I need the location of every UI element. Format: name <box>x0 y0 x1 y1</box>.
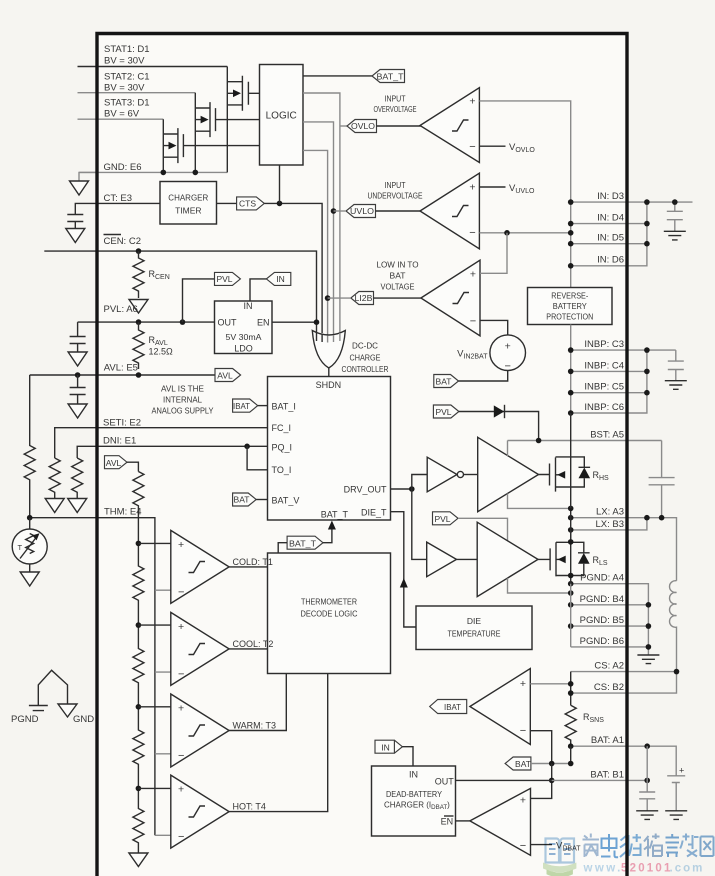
svg-text:BAT_T: BAT_T <box>289 538 316 548</box>
svg-text:EN: EN <box>441 816 454 826</box>
wire LI2B flag tip stub <box>328 297 351 299</box>
node CTS flag <box>237 197 265 210</box>
node junction AVL cap <box>75 372 81 378</box>
svg-text:INBP: C5: INBP: C5 <box>584 382 624 393</box>
svg-text:−: − <box>178 831 184 843</box>
svg-text:PGND: B4: PGND: B4 <box>580 594 624 605</box>
wire IN D4 row <box>571 223 647 225</box>
svg-text:−: − <box>469 227 475 239</box>
wire OVLO flag to comparator <box>377 125 421 128</box>
diode DHS body diode <box>571 457 590 487</box>
wire CS B2 row <box>571 672 677 694</box>
wire OVLO flag tip stub <box>340 125 347 127</box>
gate U_OR shutdown OR gate <box>312 331 345 369</box>
svg-text:−: − <box>178 750 184 762</box>
node STAT1 pin label <box>104 44 150 67</box>
node label low in to bat voltage <box>377 260 419 292</box>
op-amp U_WARM comparator <box>171 694 229 767</box>
battery BT1 <box>667 766 685 811</box>
svg-text:STAT2: C1: STAT2: C1 <box>104 72 150 83</box>
svg-text:−: − <box>470 316 476 328</box>
resistor Rt1 (AVL to COLD tap) <box>133 472 144 544</box>
node IN flag (LDO) <box>266 272 290 285</box>
wire BAT flag row <box>531 763 571 765</box>
svg-text:INBP: C4: INBP: C4 <box>584 360 624 371</box>
svg-text:+: + <box>520 678 526 690</box>
wire BAT A1 row <box>571 746 677 776</box>
wire LDO EN to CEN bus <box>272 321 317 323</box>
capacitor AVL external <box>70 375 86 404</box>
svg-text:IN: IN <box>276 274 285 284</box>
wire DBC EN to comparator <box>456 820 470 822</box>
wire INBP C4 row <box>571 370 647 372</box>
node junction HOT tap <box>136 786 142 792</box>
node junction DNI branch <box>244 444 250 450</box>
wire IN D3 row <box>571 201 693 203</box>
ground IN cap earth <box>664 231 686 240</box>
resistor RSNS <box>565 705 604 746</box>
capacitor PVL external <box>70 322 86 352</box>
svg-text:+: + <box>470 269 476 281</box>
svg-text:AVL: AVL <box>217 371 233 381</box>
node BAT flag (controller) <box>233 493 257 506</box>
wire charger timer output to CTS flag <box>217 202 237 204</box>
wire STAT2 row <box>78 92 196 94</box>
svg-text:AVL IS THE: AVL IS THE <box>161 384 204 394</box>
svg-text:DEAD-BATTERY: DEAD-BATTERY <box>386 789 442 799</box>
svg-text:IN: D4: IN: D4 <box>597 213 624 224</box>
wire INBP bus down through power stage <box>570 350 572 413</box>
svg-text:THERMOMETER: THERMOMETER <box>301 597 357 607</box>
svg-text:OVERVOLTAGE: OVERVOLTAGE <box>374 104 417 114</box>
svg-text:CONTROLLER: CONTROLLER <box>342 364 389 374</box>
wire THM row to comparator minus bus <box>30 518 155 836</box>
node junction EN on CEN bus <box>314 319 320 325</box>
svg-text:INPUT: INPUT <box>385 94 406 104</box>
node junction UV minus to LI2B plus <box>504 230 510 236</box>
resistor R SETI <box>49 458 60 498</box>
svg-text:PROTECTION: PROTECTION <box>546 312 593 322</box>
node junction RAVL bottom <box>136 372 142 378</box>
svg-text:UVLO: UVLO <box>350 206 374 216</box>
wire RBP to INBP bus <box>570 325 572 351</box>
wire OR output to SHDN <box>328 368 330 377</box>
svg-text:COOL: T2: COOL: T2 <box>233 639 274 649</box>
op-amp U_COOL comparator <box>171 612 229 685</box>
svg-text:+: + <box>178 539 184 551</box>
svg-text:BAT_V: BAT_V <box>272 496 300 506</box>
svg-text:INTERNAL: INTERNAL <box>163 395 202 405</box>
wire DBC OUT to BAT B1 row <box>456 779 552 781</box>
ground GND:E6 triangle <box>70 181 89 195</box>
node junction LS source <box>568 573 574 579</box>
svg-text:OUT: OUT <box>218 318 238 328</box>
wire UVLO flag to comparator <box>376 210 421 212</box>
svg-text:PVL: PVL <box>435 407 451 417</box>
op-amp U_LI2B low-in-to-bat comparator <box>421 260 480 336</box>
wire STAT1 row <box>78 66 228 68</box>
capacitor IN bypass <box>667 199 683 231</box>
wire LX B3 row <box>571 518 647 530</box>
node junction LX dots <box>568 515 664 533</box>
wire AVL:E5 row <box>30 374 215 376</box>
node junction HS rail LX <box>568 506 574 512</box>
svg-text:.com: .com <box>670 863 705 875</box>
svg-text:ANALOG SUPPLY: ANALOG SUPPLY <box>152 406 214 416</box>
op-amp U_OV input overvoltage comparator <box>420 88 479 163</box>
node BAT flag (VIN2BAT) <box>434 375 459 388</box>
wire HOT minus stub <box>155 834 171 836</box>
node AVL flag (thermal divider) <box>105 456 128 469</box>
ground PGND earth <box>637 655 659 664</box>
svg-text:OUT: OUT <box>435 777 455 787</box>
wire COLD output to decode <box>229 566 267 568</box>
wire PGND bus segment <box>570 584 572 647</box>
wire DRV_OUT to HS inverter <box>412 475 427 490</box>
svg-text:PVL: PVL <box>216 274 232 284</box>
svg-text:www.: www. <box>583 863 623 875</box>
node junction LS drain <box>568 539 574 545</box>
svg-text:OVLO: OVLO <box>351 121 375 131</box>
node BAT flag (bottom) <box>505 757 531 770</box>
svg-text:STAT3: D1: STAT3: D1 <box>104 98 150 109</box>
svg-text:DECODE LOGIC: DECODE LOGIC <box>301 609 358 619</box>
ground RCEN triangle <box>129 300 148 314</box>
wire LI2B minus input to VIN2BAT source <box>480 320 508 335</box>
svg-text:IN: D6: IN: D6 <box>597 255 624 266</box>
wire PVL flag drop <box>183 279 215 322</box>
node PVL flag (LDO) <box>215 272 241 285</box>
op-amp U_CTRL DC-DC charge controller block <box>268 377 391 521</box>
svg-text:FC_I: FC_I <box>272 423 292 433</box>
svg-text:−: − <box>178 587 184 599</box>
wire WARM plus stub <box>138 706 170 708</box>
wire SETI row to FC_I <box>55 428 268 458</box>
node OVLO flag <box>347 120 377 133</box>
svg-text:−: − <box>178 669 184 681</box>
svg-text:PGND: A4: PGND: A4 <box>580 573 624 584</box>
ground battery earth <box>665 811 687 820</box>
svg-text:REVERSE-: REVERSE- <box>551 291 588 301</box>
svg-text:IN: D3: IN: D3 <box>597 191 624 202</box>
svg-text:LX: B3: LX: B3 <box>595 519 624 530</box>
op-amp U_HOT comparator <box>171 775 229 848</box>
svg-text:LDO: LDO <box>234 344 253 354</box>
op-amp U_LDO block (5V 30mA LDO) <box>215 301 273 354</box>
node junction OUT row crossing <box>549 778 555 784</box>
transistor QHS high-side NMOS <box>539 413 571 508</box>
wire CT row to charger timer <box>75 203 160 210</box>
wire VIN2BAT bottom to BAT flag <box>459 371 508 382</box>
svg-text:IBAT: IBAT <box>233 401 250 411</box>
wire HOT plus stub <box>138 787 170 789</box>
svg-text:LX: A3: LX: A3 <box>596 507 624 518</box>
node label DC-DC charge controller title <box>342 341 389 374</box>
node note text AVL internal supply <box>152 384 214 416</box>
svg-text:CS: B2: CS: B2 <box>594 682 624 693</box>
diode D1 bootstrap <box>459 405 539 441</box>
svg-text:520101: 520101 <box>621 863 673 875</box>
svg-text:GND: E6: GND: E6 <box>104 162 142 173</box>
svg-text:CEN: C2: CEN: C2 <box>104 236 141 247</box>
wire PVL:A6 row (LDO OUT) <box>78 321 215 323</box>
node junction CS inductor <box>674 669 680 675</box>
wire STAT3 row <box>78 118 164 120</box>
svg-text:BV = 30V: BV = 30V <box>104 83 145 94</box>
wire LOGIC output to UVLO net <box>303 122 334 337</box>
wire LS driver bottom rail to PGND <box>508 578 571 593</box>
svg-text:12.5Ω: 12.5Ω <box>149 347 174 357</box>
svg-text:5V 30mA: 5V 30mA <box>226 332 262 342</box>
svg-text:TIMER: TIMER <box>175 206 201 216</box>
wire UV minus input to IN bus <box>479 232 570 234</box>
wire battery cap branch <box>646 746 648 792</box>
svg-text:PGND: B5: PGND: B5 <box>580 615 624 626</box>
node junction IN bus dots <box>568 199 650 268</box>
wire RSNS bottom to BAT flag row <box>570 746 572 763</box>
svg-text:LOGIC: LOGIC <box>266 111 297 122</box>
node junction thermistor tap <box>27 515 33 521</box>
svg-text:AVL: AVL <box>106 458 122 468</box>
svg-text:DRV_OUT: DRV_OUT <box>344 484 387 494</box>
wire LOGIC bottom to CTS row <box>279 165 281 203</box>
svg-text:PGND: PGND <box>11 714 39 725</box>
svg-text:COLD: T1: COLD: T1 <box>233 557 273 567</box>
watermark chinese characters <box>583 834 714 858</box>
node BAT_T flag (to controller bottom) <box>287 536 323 549</box>
wire INBP C5 row <box>571 392 647 394</box>
svg-text:IN: D5: IN: D5 <box>597 233 624 244</box>
wire PVL rail into LS driver <box>458 518 508 540</box>
svg-text:+: + <box>178 621 184 633</box>
node junction BAT flag dots <box>549 761 574 767</box>
node STAT2 pin label <box>104 72 150 94</box>
svg-text:PVL: A6: PVL: A6 <box>104 304 138 315</box>
wire DNI row to PQ_I <box>77 446 267 458</box>
svg-text:+: + <box>469 96 475 108</box>
svg-text:BAT_T: BAT_T <box>321 510 349 520</box>
transistor Q3 (STAT1 open-drain NMOS) <box>227 67 259 173</box>
diode DLS body diode <box>571 542 590 575</box>
wire OV minus input VOVLO <box>479 145 505 147</box>
wire LOGIC output to OVLO net <box>303 93 340 336</box>
wire BST rail into HS driver <box>507 441 509 457</box>
node PVL flag (bootstrap diode) <box>433 405 459 418</box>
op-amp U_DBC dead-battery charger block <box>372 766 456 836</box>
wire PGND A4 row <box>571 584 649 605</box>
svg-text:SETI: E2: SETI: E2 <box>103 418 141 429</box>
op-amp U_IBAT current sense amp <box>470 669 530 745</box>
wire OV plus input from IN <box>479 101 570 202</box>
wire UV plus input VUVLO <box>479 186 505 188</box>
svg-text:BAT_T: BAT_T <box>377 71 404 81</box>
svg-text:CS: A2: CS: A2 <box>594 661 624 672</box>
wire INBP C3 row <box>571 349 676 351</box>
svg-text:VOLTAGE: VOLTAGE <box>381 282 415 292</box>
svg-text:BAT_I: BAT_I <box>272 401 296 411</box>
svg-text:+: + <box>505 341 511 353</box>
svg-text:+: + <box>469 182 475 194</box>
wire BAT_T flag right to controller with arrow <box>323 521 336 543</box>
svg-text:−: − <box>469 141 475 153</box>
wire IN D6 row <box>571 202 647 266</box>
op-amp U_COLD comparator <box>171 530 229 603</box>
node junction RCEN tap <box>136 248 142 254</box>
wire PGND B6 row <box>571 605 649 655</box>
node junction PGND dots <box>568 581 651 650</box>
wire COLD plus stub <box>138 542 170 544</box>
wire IN flag to DBC box <box>402 747 413 766</box>
svg-text:PVL: PVL <box>434 514 450 524</box>
gate U_BUF LS buffer <box>427 542 478 577</box>
svg-text:CT: E3: CT: E3 <box>104 193 133 204</box>
svg-text:+: + <box>178 784 184 796</box>
svg-text:T: T <box>18 543 23 552</box>
wire LS source to PGND bus <box>570 576 572 584</box>
wire BAT flag to BAT_V <box>256 499 267 501</box>
svg-text:DC-DC: DC-DC <box>352 341 378 351</box>
svg-text:LOW IN TO: LOW IN TO <box>377 260 419 270</box>
node IN flag (DBC) <box>375 740 402 753</box>
svg-text:BAT: B1: BAT: B1 <box>590 769 624 780</box>
inductor L1 <box>670 581 677 672</box>
resistor Rt5 (HOT to ground) <box>133 788 144 852</box>
wire LX A3 row <box>571 518 677 581</box>
svg-text:−: − <box>520 840 526 852</box>
svg-text:SHDN: SHDN <box>316 380 342 390</box>
node label input undervoltage <box>368 180 423 201</box>
wire DBC comp minus VDBAT <box>531 844 553 846</box>
wire HS driver bottom rail to LX <box>508 494 571 509</box>
wire IBAT minus to BAT net <box>530 731 551 764</box>
wire AVL flag to divider chain <box>127 462 138 471</box>
wire OR gate input stubs <box>317 333 323 343</box>
svg-text:+: + <box>679 766 684 776</box>
gate U_HSDRV high-side driver <box>478 437 539 511</box>
svg-text:UNDERVOLTAGE: UNDERVOLTAGE <box>368 191 423 201</box>
node IBAT flag (sense amp) <box>430 700 467 714</box>
svg-text:+: + <box>520 795 526 807</box>
wire DIE_T input from die temperature <box>391 512 417 627</box>
node junction COOL tap <box>136 622 142 628</box>
wire IN bus down to RBP <box>570 202 572 287</box>
resistor Rt4 <box>133 707 144 789</box>
svg-text:BAT: BAT <box>436 377 452 387</box>
svg-text:IBAT: IBAT <box>444 702 461 712</box>
wire BAT net down to DBC plus <box>531 764 552 799</box>
svg-text:BAT: BAT <box>515 759 531 769</box>
node junction Q1 source to GND <box>161 170 167 176</box>
ground thermal divider triangle <box>129 853 148 867</box>
node junction PVL flag drop <box>180 319 186 325</box>
svg-text:BV = 6V: BV = 6V <box>104 109 140 120</box>
capacitor INBP bypass <box>668 350 684 381</box>
svg-text:BATTERY: BATTERY <box>553 301 587 311</box>
wire BST row <box>508 440 662 442</box>
ground PVL cap triangle <box>68 352 87 366</box>
wire LI2B flag to comparator <box>374 297 421 299</box>
svg-text:BAT: BAT <box>234 495 250 505</box>
node CEN: C2 pin label (overline on CEN) <box>104 235 141 248</box>
wire CS bus left vertical <box>570 672 572 706</box>
svg-text:INBP: C6: INBP: C6 <box>584 402 624 413</box>
node junction RAVL tap <box>136 319 142 325</box>
capacitor CT external <box>67 211 83 229</box>
resistor Rt3 <box>133 625 144 707</box>
charger timer block <box>160 182 217 225</box>
node junction DRV_OUT <box>409 486 415 492</box>
node junction CS B2 left <box>568 690 574 696</box>
wire IN D5 row <box>571 243 647 245</box>
svg-text:CHARGE: CHARGE <box>350 352 381 362</box>
node PGND GND tie symbol <box>11 670 94 725</box>
op-amp U_DBCEN comparator <box>470 788 531 855</box>
ground BAT cap earth <box>636 811 658 820</box>
node VIN2BAT source <box>457 335 525 373</box>
ground AVL cap triangle <box>68 404 87 418</box>
svg-text:THM: E4: THM: E4 <box>104 507 141 518</box>
chip outline border <box>97 34 627 876</box>
svg-text:STAT1: D1: STAT1: D1 <box>104 44 150 55</box>
wire HOT output up to decode bottom <box>229 674 328 812</box>
svg-text:−: − <box>520 725 526 737</box>
op-amp U_LOGIC block <box>260 65 304 166</box>
wire LOGIC to BAT_T flag <box>303 75 372 77</box>
node junction INBP bus dots <box>568 347 650 416</box>
svg-text:INBP: C3: INBP: C3 <box>584 339 624 350</box>
op-amp U_UV input undervoltage comparator <box>420 173 479 249</box>
wire COOL plus stub <box>138 624 170 626</box>
node PVL flag (LS driver) <box>433 512 459 525</box>
wire IN bus LX segment <box>570 508 572 542</box>
resistor RCEN <box>133 251 170 298</box>
wire IBAT plus input to CS bus <box>530 683 570 685</box>
svg-text:BST: A5: BST: A5 <box>590 430 624 441</box>
wire LI2B plus input to UV minus net <box>480 233 507 273</box>
node junction LOGIC to CTS row <box>277 201 283 207</box>
ground INBP cap earth <box>665 381 687 390</box>
wire BAT_T flag left to decode box <box>278 543 287 553</box>
svg-text:DIE: DIE <box>467 616 482 626</box>
ground thermistor triangle <box>20 572 39 586</box>
svg-text:EN: EN <box>257 318 270 328</box>
node BAT_T flag (top) <box>372 70 405 83</box>
resistor R divider left (AVL row) <box>24 375 35 518</box>
svg-text:TO_I: TO_I <box>272 465 292 475</box>
gate U_LSDRV low-side driver <box>477 522 538 596</box>
svg-text:CTS: CTS <box>239 199 256 209</box>
wire COOL minus stub <box>155 671 171 673</box>
node LI2B flag with junction <box>351 292 374 305</box>
wire COLD minus stub <box>155 589 171 591</box>
thermistor T <box>12 518 47 572</box>
svg-text:+: + <box>178 703 184 715</box>
capacitor BAT output <box>639 792 655 811</box>
wire WARM output up to decode bottom <box>229 674 286 731</box>
wire UVLO flag tip stub <box>334 210 347 212</box>
wire DRV_OUT to LS buffer <box>412 489 427 559</box>
node junction BAT A1 dots <box>568 743 650 749</box>
wire CTS to shutdown bus <box>264 203 322 333</box>
svg-text:DIE_T: DIE_T <box>361 507 387 517</box>
svg-text:BAT: BAT <box>390 271 406 281</box>
node junction BST diode <box>536 438 542 444</box>
op-amp U_DIETEMP die temperature block <box>416 606 532 650</box>
node junction COLD tap <box>136 541 142 547</box>
wire CS A2 row <box>571 671 677 673</box>
gate U_INV HS inverter <box>427 457 478 492</box>
svg-text:PGND: B6: PGND: B6 <box>580 636 624 647</box>
